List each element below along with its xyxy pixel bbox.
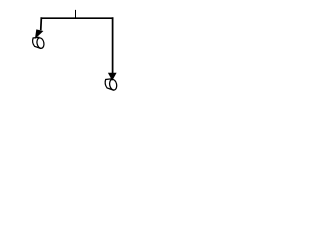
left cylinder node xyxy=(33,37,45,49)
right arrowhead xyxy=(108,73,117,81)
left wire xyxy=(40,17,43,30)
right cylinder node xyxy=(105,79,118,91)
top stub wire xyxy=(75,10,77,18)
tree connector diagram xyxy=(0,0,150,101)
left arrowhead xyxy=(35,29,44,39)
right wire xyxy=(112,17,114,73)
horizontal wire xyxy=(41,17,114,19)
